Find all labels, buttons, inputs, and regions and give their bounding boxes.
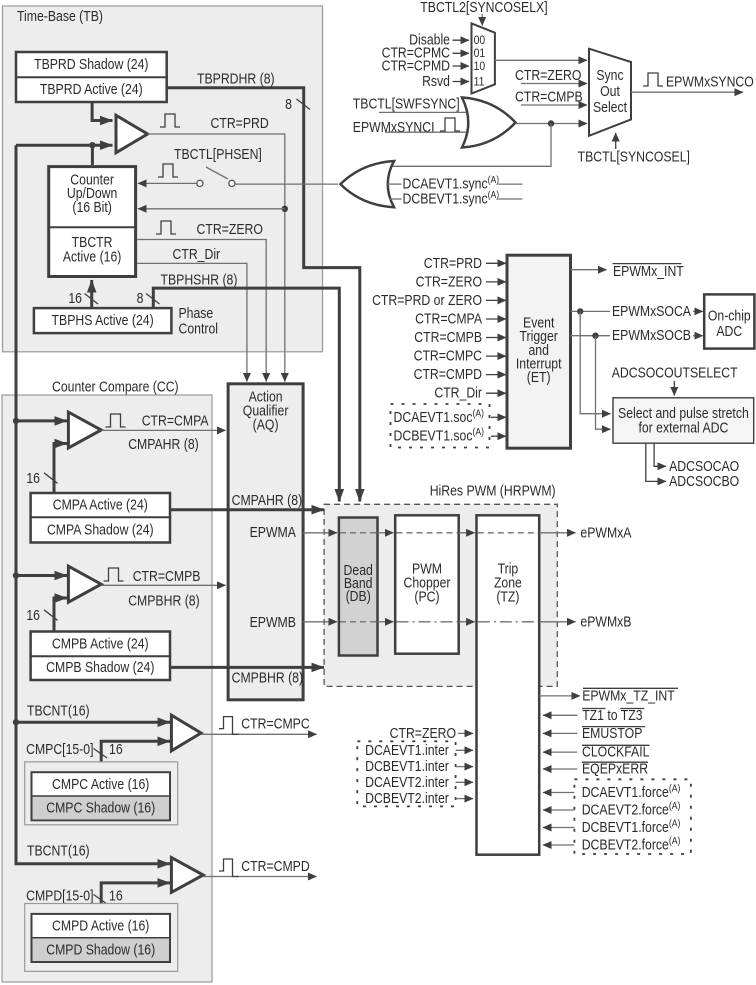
pulse EPWMxSYNCI (440, 118, 460, 131)
svg-text:8: 8 (137, 290, 144, 306)
svg-text:TBCTL[PHSEN]: TBCTL[PHSEN] (174, 146, 262, 162)
svg-text:DCBEVT2.force(A): DCBEVT2.force(A) (582, 835, 681, 852)
svg-text:CTR=CMPA: CTR=CMPA (415, 311, 482, 327)
wire DCAEVT2.force (543, 809, 574, 811)
wire EPWMxSOCA (571, 310, 611, 312)
wire CMPD to comparator D (101, 883, 170, 914)
svg-text:Counter Compare (CC): Counter Compare (CC) (52, 379, 179, 395)
svg-text:ePWMxB: ePWMxB (580, 613, 631, 629)
wire TBCTL2 select to mux (481, 14, 483, 26)
wire EPWMB path (303, 621, 337, 623)
wire SWFSYNC to OR1 (379, 111, 466, 113)
dashed box DC inter events (357, 741, 455, 806)
wire TBCNT to comparator B (16, 574, 67, 577)
wire CLOCKFAIL input (543, 751, 577, 753)
svg-text:CTR=CMPB: CTR=CMPB (515, 89, 583, 105)
wire CTR=PRD to AQ (148, 134, 285, 382)
wire SOCB to pulse stretch (596, 336, 611, 430)
svg-text:DCAEVT1.soc(A): DCAEVT1.soc(A) (394, 408, 485, 425)
wire Rsvd to mux (453, 81, 470, 83)
svg-text:ADCSOCAO: ADCSOCAO (669, 458, 739, 474)
svg-text:CMPB Shadow (24): CMPB Shadow (24) (46, 659, 154, 675)
wire CMPA to comparator A (54, 444, 67, 494)
svg-text:CMPA Shadow (24): CMPA Shadow (24) (47, 521, 154, 537)
svg-text:CTR=PRD: CTR=PRD (211, 115, 269, 131)
svg-text:(ET): (ET) (527, 369, 551, 385)
wire TBPHSHR (8) bus (153, 288, 339, 501)
register CMPA Active/Shadow (31, 493, 170, 543)
svg-text:CMPC Shadow (16): CMPC Shadow (16) (46, 800, 155, 816)
svg-text:TBPRDHR (8): TBPRDHR (8) (197, 71, 275, 87)
svg-text:(DB): (DB) (346, 588, 371, 604)
wire ADCSOCAO (654, 443, 666, 466)
wire CTR=CMPB to sync select (521, 104, 587, 106)
svg-text:00: 00 (474, 34, 486, 47)
wire EPWMxSOCB (571, 335, 611, 337)
switch TBCTL[PHSEN] (197, 180, 203, 186)
svg-text:DCBEVT1.inter: DCBEVT1.inter (365, 758, 449, 774)
svg-text:On-chip: On-chip (708, 307, 751, 323)
wire Disable to mux (453, 39, 470, 41)
wire CTR=CMPD out (203, 876, 316, 878)
dashed box DC soc events (391, 404, 490, 448)
svg-text:CTR=CMPB: CTR=CMPB (133, 568, 201, 584)
wire TBPRDHR (8) bus (167, 88, 360, 502)
or-gate U1 sync (462, 98, 516, 148)
wire CTR_Dir to AQ (137, 263, 247, 381)
svg-text:Sync: Sync (596, 67, 623, 83)
svg-text:EPWMB: EPWMB (250, 614, 296, 630)
svg-text:CMPD[15-0]: CMPD[15-0] (26, 887, 93, 903)
wire CMPA bus to HRPWM (170, 508, 324, 511)
register TBPHS Active (34, 308, 172, 333)
svg-text:DCBEVT1.force(A): DCBEVT1.force(A) (582, 818, 681, 835)
svg-text:CMPAHR (8): CMPAHR (8) (232, 492, 303, 508)
wire TBCTR stub to counter (91, 145, 94, 165)
Counter Compare (CC) region background (2, 395, 212, 982)
svg-text:11: 11 (474, 76, 485, 89)
svg-text:CMPC Active (16): CMPC Active (16) (52, 776, 149, 792)
node SOCA junction (577, 308, 583, 314)
block On-chip ADC (704, 294, 754, 348)
wire counter sync input 2 (138, 208, 285, 210)
svg-text:ADC: ADC (716, 323, 742, 339)
comparator CTR=CMPA (68, 412, 101, 448)
svg-text:for external ADC: for external ADC (638, 420, 728, 436)
svg-text:Time-Base (TB): Time-Base (TB) (17, 8, 103, 24)
Time-Base (TB) region background (3, 6, 323, 352)
block Event Trigger and Interrupt (ET) (507, 255, 571, 448)
block Action Qualifier (AQ) (228, 384, 303, 700)
svg-text:ADCSOCBO: ADCSOCBO (669, 473, 739, 489)
mux SYNCOSELX (472, 23, 495, 93)
svg-text:Out: Out (600, 83, 620, 99)
register TBPRD Shadow/Active (16, 52, 167, 102)
svg-text:TBPHSHR (8): TBPHSHR (8) (161, 272, 238, 288)
HiRes PWM (HRPWM) dashed region background (324, 504, 557, 686)
svg-text:CMPBHR (8): CMPBHR (8) (128, 592, 199, 608)
wire EPWMxSYNCI to OR1 (385, 131, 467, 133)
svg-text:TBPRD Active (24): TBPRD Active (24) (40, 81, 143, 97)
svg-text:(16 Bit): (16 Bit) (72, 199, 111, 215)
svg-text:16: 16 (109, 887, 123, 903)
svg-text:EQEPxERR: EQEPxERR (582, 761, 648, 777)
svg-text:EPWMx_INT: EPWMx_INT (613, 263, 684, 279)
wire DCBEVT1.sync stub (389, 198, 402, 200)
svg-text:CMPAHR (8): CMPAHR (8) (128, 436, 199, 452)
svg-text:TBCTL[SWFSYNC]: TBCTL[SWFSYNC] (353, 96, 460, 112)
wire TBCNT to comparator C (16, 721, 170, 724)
svg-text:CTR=ZERO: CTR=ZERO (390, 725, 456, 741)
svg-text:DCAEVT2.inter: DCAEVT2.inter (365, 774, 449, 790)
svg-text:HiRes PWM (HRPWM): HiRes PWM (HRPWM) (430, 483, 556, 499)
wire switch to counter (138, 182, 197, 184)
wire mux1 output to sync select (495, 59, 587, 61)
wire TBCNT left bus (16, 145, 170, 864)
wire CMPB bus to HRPWM (170, 666, 324, 669)
wire ADCSOCOUTSELECT (673, 381, 675, 396)
svg-text:10: 10 (474, 60, 486, 73)
svg-text:TBCNT(16): TBCNT(16) (27, 703, 90, 719)
svg-text:EPWMxSYNCO: EPWMxSYNCO (666, 74, 754, 90)
svg-text:DCBEVT1.soc(A): DCBEVT1.soc(A) (394, 427, 485, 444)
node TBCTR tap (89, 142, 95, 148)
node TBCNT tap C (13, 719, 19, 725)
svg-text:(AQ): (AQ) (253, 416, 279, 432)
wire EPWMxSYNCO output (631, 91, 743, 93)
wire EQEPxERR input (543, 768, 577, 770)
wire EPWMx_TZ_INT (539, 695, 580, 697)
wire CTR=ZERO to TZ (458, 732, 473, 734)
wire EPWMA path (303, 532, 337, 534)
comparator CTR=CMPC (171, 715, 201, 751)
wire CTR=CMPA to AQ (101, 429, 225, 431)
svg-text:DCAEVT1.inter: DCAEVT1.inter (365, 742, 449, 758)
svg-text:EPWMxSOCB: EPWMxSOCB (612, 327, 691, 343)
group CMPC registers (25, 762, 178, 825)
svg-text:CTR=ZERO: CTR=ZERO (416, 274, 482, 290)
wire TZ1 to TZ3 input (543, 714, 577, 716)
svg-text:Phase: Phase (179, 305, 214, 321)
svg-text:Select: Select (593, 99, 627, 115)
svg-text:CMPC[15-0]: CMPC[15-0] (26, 741, 93, 757)
pulse CTR=CMPD (219, 859, 239, 877)
comparator CTR=CMPD (171, 858, 203, 893)
svg-text:16: 16 (68, 290, 82, 306)
svg-text:CTR=PRD or ZERO: CTR=PRD or ZERO (372, 292, 482, 308)
wire TBPRD to comparator (92, 102, 112, 121)
svg-text:CTR=PRD: CTR=PRD (424, 255, 482, 271)
pulse CTR=PRD (160, 114, 180, 127)
wire CTR=CMPC out (201, 733, 317, 735)
svg-text:16: 16 (109, 741, 123, 757)
wire EMUSTOP input (543, 732, 577, 734)
wire OR1 output (516, 123, 588, 125)
svg-text:DCBEVT1.sync(A): DCBEVT1.sync(A) (403, 189, 500, 206)
svg-text:ePWMxA: ePWMxA (580, 524, 631, 540)
svg-text:(PC): (PC) (414, 589, 439, 605)
wire sync junction to OR2 (390, 124, 551, 167)
svg-text:CMPBHR (8): CMPBHR (8) (232, 669, 303, 685)
svg-text:8: 8 (285, 96, 292, 112)
svg-text:16: 16 (26, 607, 40, 623)
svg-text:(TZ): (TZ) (496, 589, 519, 605)
pulse CTR=ZERO (156, 221, 176, 234)
pulse EPWMxSYNCO (643, 73, 663, 86)
wire DCAEVT1.force (543, 792, 574, 794)
wire CTR=CMPB to AQ (101, 584, 225, 586)
svg-text:DCBEVT2.inter: DCBEVT2.inter (365, 790, 449, 806)
wire TBCTR bus to comparator (16, 144, 113, 147)
wire SYNCOSEL to mux (615, 133, 617, 149)
svg-text:ADCSOCOUTSELECT: ADCSOCOUTSELECT (612, 365, 738, 381)
svg-text:CTR=CMPA: CTR=CMPA (142, 413, 209, 429)
wire CTR=ZERO to AQ (137, 240, 266, 382)
svg-text:TBCTL2[SYNCOSELX]: TBCTL2[SYNCOSELX] (420, 0, 547, 15)
block PWM Chopper (PC) (395, 515, 459, 653)
node sync junction (548, 120, 554, 126)
svg-text:CTR_Dir: CTR_Dir (173, 246, 221, 262)
svg-text:CTR=CMPD: CTR=CMPD (414, 366, 483, 382)
node TBCNT tap A (13, 418, 19, 424)
dashed box DC force events (574, 779, 691, 854)
svg-text:EPWMA: EPWMA (250, 524, 296, 540)
node CTR=PRD to counter junction (282, 206, 288, 212)
svg-text:Control: Control (179, 320, 219, 336)
comparator CTR=PRD (116, 115, 148, 152)
svg-text:16: 16 (26, 470, 40, 486)
svg-text:TBCNT(16): TBCNT(16) (27, 843, 90, 859)
svg-text:TBCTL[SYNCOSEL]: TBCTL[SYNCOSEL] (578, 149, 690, 165)
mux Sync Out Select (589, 49, 631, 136)
wire TBCNT to comparator A (16, 419, 67, 422)
group CMPD registers (25, 904, 178, 972)
svg-text:CMPB Active (24): CMPB Active (24) (52, 635, 149, 651)
wire ADCSOCBO (646, 443, 666, 481)
svg-text:CMPD Active (16): CMPD Active (16) (52, 918, 149, 934)
pulse CTR=CMPA (106, 414, 126, 427)
svg-text:CTR=CMPC: CTR=CMPC (241, 715, 310, 731)
pulse TBCTL[PHSEN] (158, 164, 178, 177)
svg-text:CMPA Active (24): CMPA Active (24) (53, 497, 148, 513)
svg-text:CLOCKFAIL: CLOCKFAIL (582, 744, 650, 760)
wire OR2 output to switch (235, 183, 338, 185)
svg-text:CTR=CPMD: CTR=CPMD (382, 57, 451, 73)
svg-text:DCAEVT1.force(A): DCAEVT1.force(A) (582, 783, 681, 800)
wire CTR=CPMD to mux (453, 65, 470, 67)
svg-text:CTR=ZERO: CTR=ZERO (515, 67, 581, 83)
svg-text:EPWMx_TZ_INT: EPWMx_TZ_INT (582, 687, 675, 703)
node SOCB junction (592, 333, 598, 339)
svg-text:DCAEVT1.sync(A): DCAEVT1.sync(A) (403, 174, 500, 191)
svg-text:TBPRD Shadow (24): TBPRD Shadow (24) (34, 56, 148, 72)
svg-text:TZ1 to TZ3: TZ1 to TZ3 (582, 707, 642, 723)
wire DCBEVT2.force (543, 844, 574, 846)
wire TBPHS to TBCTR (90, 280, 93, 308)
pulse CTR=CMPB (104, 568, 124, 581)
wire CMPC to comparator C (101, 741, 170, 772)
svg-text:CTR=CMPB: CTR=CMPB (414, 329, 482, 345)
svg-text:EMUSTOP: EMUSTOP (582, 725, 642, 741)
svg-text:CTR=CMPD: CTR=CMPD (241, 858, 310, 874)
counter Up/Down box (49, 167, 136, 277)
svg-text:TBPHS Active (24): TBPHS Active (24) (52, 312, 154, 328)
svg-text:01: 01 (474, 47, 486, 60)
svg-text:CTR=CMPC: CTR=CMPC (414, 348, 483, 364)
pulse CTR=CMPC (219, 717, 239, 735)
register CMPB Active/Shadow (31, 632, 170, 681)
block Dead Band (DB) (339, 518, 378, 656)
wire EPWMx_INT (571, 269, 607, 271)
svg-text:CTR_Dir: CTR_Dir (434, 385, 482, 401)
wire CMPB to comparator B (54, 598, 67, 632)
svg-text:EPWMxSOCA: EPWMxSOCA (612, 303, 691, 319)
block Trip Zone (TZ) (477, 515, 540, 854)
or-gate U2 phase sync (mirrored) (340, 161, 394, 207)
wire SOCA to pulse stretch (580, 311, 610, 413)
wire CTR=CPMC to mux (453, 52, 470, 54)
svg-text:CTR=ZERO: CTR=ZERO (197, 221, 263, 237)
svg-text:CMPD Shadow (16): CMPD Shadow (16) (46, 941, 155, 957)
wire DCBEVT1.force (543, 827, 574, 829)
svg-text:Rsvd: Rsvd (422, 73, 450, 89)
comparator CTR=CMPB (68, 566, 101, 602)
block Select and pulse stretch (613, 398, 754, 443)
node TBCNT tap B (13, 572, 19, 578)
wire CTR=ZERO to sync select (521, 83, 587, 85)
svg-text:DCAEVT2.force(A): DCAEVT2.force(A) (582, 800, 681, 817)
svg-text:Active (16): Active (16) (63, 249, 122, 265)
wire DCAEVT1.sync stub (387, 183, 402, 185)
